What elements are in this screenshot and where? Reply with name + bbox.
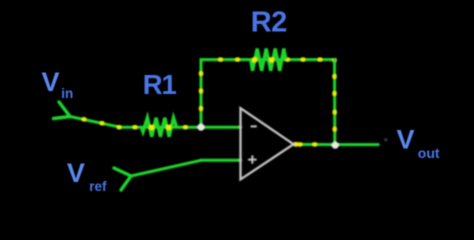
unconnected post (V_out terminal): [384, 138, 387, 141]
wire V_out stub: [335, 143, 378, 146]
svg-text:in: in: [61, 86, 73, 101]
wire V_ref lead (sloped): [131, 160, 201, 176]
wire feedback top horizontal: [201, 58, 335, 61]
svg-text:out: out: [418, 145, 440, 161]
svg-text:V: V: [67, 158, 85, 188]
label V_in: [42, 67, 74, 101]
resistor R1 (zigzag): [141, 118, 176, 137]
svg-text:ref: ref: [89, 179, 107, 194]
label V_ref: [67, 158, 107, 194]
current dots (inside R1): [149, 125, 171, 130]
current dots (feedback left vertical): [199, 71, 203, 110]
wire feedback left vertical (node A up): [200, 60, 203, 128]
antenna terminal V_in: [54, 102, 71, 119]
label V_out: [397, 124, 440, 161]
svg-text:R2: R2: [251, 7, 287, 39]
wire op-amp output (to node B): [294, 143, 335, 146]
antenna terminal V_ref: [114, 168, 131, 190]
current dots (output wire): [294, 142, 317, 147]
current dots (feedback top wire and R2): [218, 57, 336, 62]
current dots (feedback right vertical): [332, 74, 337, 131]
label R1: [143, 69, 177, 100]
svg-text:V: V: [397, 124, 415, 154]
node B (output junction): [332, 142, 339, 149]
wire V_in lead (sloped): [70, 117, 120, 128]
wire op-amp non-inverting input: [201, 159, 241, 162]
op-amp U1: [241, 108, 294, 179]
wire op-amp inverting input (node A to U1): [201, 126, 241, 129]
node A (junction at R1 / feedback / inverting input): [197, 124, 204, 131]
svg-text:R1: R1: [143, 69, 177, 100]
resistor R2 (zigzag): [251, 49, 286, 71]
current dots (V_in wire and R1): [82, 117, 188, 129]
svg-text:V: V: [42, 67, 60, 97]
wire feedback right vertical (down to output node): [333, 60, 336, 145]
current dots (inside R2): [252, 57, 274, 62]
label R2: [251, 7, 287, 39]
wire R1 horizontal (V_in to node A): [120, 126, 201, 129]
